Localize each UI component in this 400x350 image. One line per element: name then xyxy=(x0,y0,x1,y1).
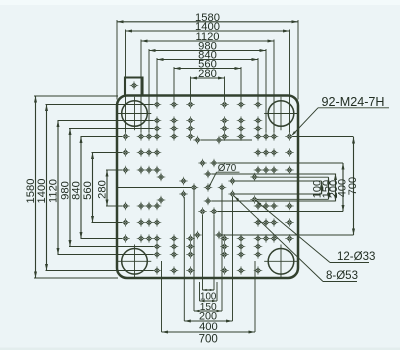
svg-text:400: 400 xyxy=(199,321,218,333)
dimension 980 top xyxy=(149,50,266,52)
top dimension extension lines xyxy=(117,20,298,133)
svg-text:700: 700 xyxy=(347,177,359,195)
tie-bar hole top-right xyxy=(268,101,294,127)
platen outline xyxy=(117,96,298,279)
row 1120-top M24 holes xyxy=(153,116,263,125)
left dimension extension lines xyxy=(34,96,154,278)
row 280-top M24 holes xyxy=(121,166,294,175)
dimension 400 bottom xyxy=(184,320,232,322)
tie-bar hole top-left xyxy=(122,101,148,127)
horizontal centre line xyxy=(118,187,192,189)
row 1120-bottom M24 holes xyxy=(153,250,263,259)
hole outer SW xyxy=(193,234,202,236)
svg-text:700: 700 xyxy=(199,334,218,346)
dimension 560 left xyxy=(92,153,94,223)
svg-text:560: 560 xyxy=(82,181,94,200)
row 280-bottom M24 holes xyxy=(121,202,294,211)
row 980-bottom M24 holes xyxy=(153,242,263,251)
row 980-top M24 holes xyxy=(153,124,263,133)
svg-text:8-Ø53: 8-Ø53 xyxy=(326,270,358,282)
dimension 280 left xyxy=(106,170,108,206)
hole SE diag xyxy=(210,211,219,213)
hole mid-W lower xyxy=(157,199,166,201)
hole NW diag xyxy=(198,162,207,164)
bottom dimension extension lines xyxy=(162,191,256,333)
dimension 1580 top xyxy=(117,21,298,23)
hole right-pair upper xyxy=(228,180,237,182)
dimension 560 top xyxy=(174,68,241,70)
dimension 150 right xyxy=(328,177,330,199)
leader 92-M24-7H xyxy=(318,107,389,109)
dimension 1120 left xyxy=(57,121,59,255)
dimension 280 top xyxy=(191,77,225,79)
tie-bar hole bottom-right xyxy=(268,248,294,274)
svg-text:280: 280 xyxy=(198,68,217,80)
leader 12-Ø33 xyxy=(256,201,330,263)
hole SW diag xyxy=(198,211,207,213)
right dimension extension lines xyxy=(201,137,354,236)
row 840-bottom M24 holes xyxy=(121,234,294,243)
tie-bar hole bottom-left xyxy=(122,248,148,274)
svg-text:12-Ø33: 12-Ø33 xyxy=(337,251,375,263)
hole W of centre xyxy=(190,187,199,189)
leader Ø70 xyxy=(217,171,240,173)
hole mid-W upper xyxy=(157,176,166,178)
row 560-bottom M24 holes xyxy=(121,218,294,227)
svg-text:1400: 1400 xyxy=(36,179,48,204)
hole E of centre xyxy=(218,187,227,189)
hole outer NE xyxy=(215,139,224,141)
hole left-pair upper xyxy=(179,180,188,182)
row 1400-bottom M24 holes xyxy=(153,266,263,275)
row 840-top M24 holes xyxy=(121,132,294,141)
dimension 840 left xyxy=(80,137,82,239)
hole outer SE xyxy=(215,234,224,236)
scan light top strip xyxy=(0,0,400,5)
dimension 200 bottom xyxy=(194,310,222,312)
dimension 980 left xyxy=(69,129,71,247)
dimension 1400 top xyxy=(126,30,290,32)
hole N of centre xyxy=(204,173,213,175)
centre hole xyxy=(204,187,213,189)
boss M24 hole xyxy=(130,85,139,87)
dimension 1400 left xyxy=(46,105,48,271)
hole NE diag xyxy=(210,162,219,164)
dimension 100 right xyxy=(321,181,323,194)
dimension 700 right xyxy=(353,137,355,235)
dimension 840 top xyxy=(157,59,258,61)
dimension 150 bottom xyxy=(200,300,218,302)
scan shading bottom band xyxy=(0,348,400,350)
hole mid-E upper xyxy=(250,176,259,178)
svg-text:1120: 1120 xyxy=(48,179,60,203)
row 1400-top M24 holes xyxy=(153,100,263,109)
svg-text:280: 280 xyxy=(97,180,109,199)
hole S of centre xyxy=(204,200,213,202)
svg-text:840: 840 xyxy=(71,181,83,200)
dimension 700 bottom xyxy=(162,331,256,333)
svg-text:92-M24-7H: 92-M24-7H xyxy=(322,95,385,109)
dimension 1580 left xyxy=(35,96,37,278)
leader 8-Ø53 xyxy=(234,196,323,282)
hole outer NW xyxy=(193,139,202,141)
dimension 100 bottom xyxy=(203,289,215,291)
dimension 400 right xyxy=(342,163,344,212)
top-left bump (locating boss) xyxy=(125,78,143,96)
row 560-top M24 holes xyxy=(121,148,294,157)
hole left-pair lower xyxy=(179,193,188,195)
dimension 1120 top xyxy=(141,40,274,42)
hole right-pair lower xyxy=(228,193,237,195)
dimension 200 right xyxy=(335,174,337,202)
hole mid-E lower xyxy=(250,199,259,201)
